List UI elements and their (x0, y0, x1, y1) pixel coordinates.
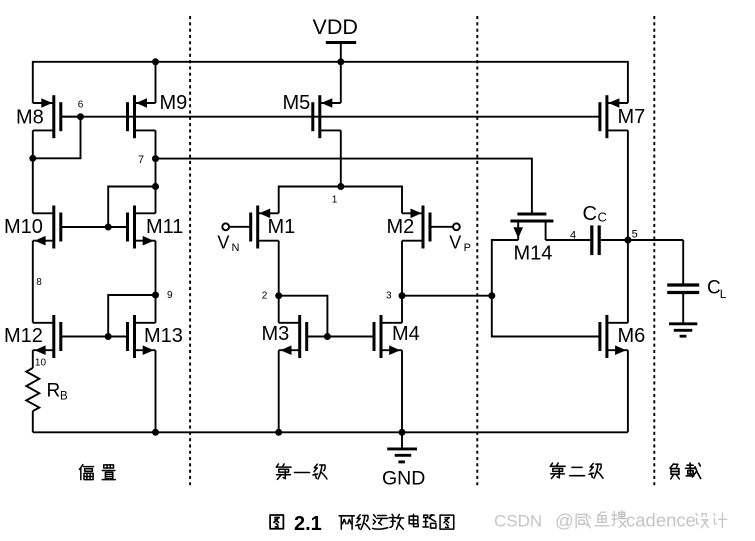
wire M10 M11 gate lead (61, 226, 128, 228)
svg-text:4: 4 (570, 230, 576, 242)
transistor M10 (33, 212, 54, 214)
label section load 负载 (670, 464, 679, 479)
wire bottom GND rail (33, 431, 628, 433)
wire CC to node5 (601, 239, 683, 241)
wire M9 source column (155, 62, 157, 103)
ground CL load ground (669, 322, 697, 325)
terminal VN input (222, 223, 229, 230)
wire bias gate line node6 (61, 116, 600, 118)
terminal VP input (453, 223, 460, 230)
svg-text:8: 8 (36, 277, 42, 288)
wire node7 line to M14 gate (156, 159, 532, 214)
wire M3 diode connection (279, 296, 328, 337)
transistor M6 (607, 322, 628, 324)
svg-text:V: V (217, 233, 229, 253)
node M12 M13 gate junction (105, 333, 112, 340)
transistor M8 (33, 102, 54, 104)
svg-text:M6: M6 (618, 325, 646, 347)
power VDD symbol (326, 41, 356, 44)
wire junction up to M14 source (492, 240, 518, 296)
transistor M12 (33, 322, 54, 324)
svg-text:M4: M4 (392, 323, 420, 345)
resistor RB (26, 368, 39, 411)
svg-text:1: 1 (332, 195, 338, 206)
wire CL to ground (682, 294, 684, 322)
label section bias 偏置 (79, 465, 93, 480)
transistor M5 (320, 102, 341, 104)
caption 图2.1 两级运放电路图 (270, 515, 283, 529)
divider first/second-stage (476, 16, 478, 486)
svg-text:B: B (60, 391, 68, 403)
node 7 (152, 155, 159, 162)
svg-text:C: C (598, 210, 607, 225)
label section first-stage 第一级 (276, 464, 291, 479)
wire M6 source to bottom rail (627, 350, 629, 432)
node 8 wire M10 source to M12 drain (32, 241, 34, 323)
label section second-stage 第二级 (550, 463, 565, 478)
node M3 M4 gate junction (324, 333, 331, 340)
wire M4 source to rail (401, 350, 403, 432)
svg-text:3: 3 (386, 290, 392, 301)
wire M8 drain to M10 drain (32, 130, 34, 213)
svg-text:M1: M1 (268, 216, 296, 238)
svg-text:M2: M2 (387, 216, 415, 238)
node bottom rail junctions (152, 429, 159, 436)
node M11 diode junction (152, 183, 159, 190)
wire node2 to M3 drain (278, 296, 280, 323)
node VDD junction dots on rail (152, 58, 159, 65)
transistor M14 (517, 213, 546, 216)
wire M5 drain to node1 (340, 130, 342, 186)
node 5 (624, 237, 631, 244)
wire resistor to bottom rail (32, 411, 34, 432)
wire M14 drain to CC (546, 239, 590, 241)
transistor M2 (402, 212, 423, 214)
node second stage junction (488, 292, 495, 299)
svg-text:M12: M12 (4, 325, 43, 347)
node 9 (152, 292, 159, 299)
wire M2 drain to node3 (401, 241, 403, 296)
wire top VDD rail (33, 62, 628, 103)
wire node3 to second stage (402, 295, 492, 297)
svg-text:V: V (449, 233, 461, 253)
svg-text:M13: M13 (144, 325, 183, 347)
transistor M4 (381, 322, 402, 324)
transistor M9 (135, 102, 156, 104)
wire M12 source to resistor (32, 350, 34, 368)
svg-text:7: 7 (138, 154, 144, 166)
wire junction down to M6 gate (492, 296, 600, 337)
svg-text:2: 2 (262, 290, 268, 301)
node 9 wire M11 source to M13 drain (155, 241, 157, 323)
node M8 drain junction (29, 155, 36, 162)
transistor M7 (607, 102, 628, 104)
svg-text:M7: M7 (618, 106, 646, 128)
svg-text:cadence: cadence (626, 510, 696, 531)
wire M12 M13 gate lead (61, 336, 128, 338)
wire M3 source to rail (278, 350, 280, 432)
node 6 (77, 113, 84, 120)
svg-text:M11: M11 (146, 216, 183, 238)
node 1 (337, 183, 344, 190)
svg-text:M14: M14 (514, 243, 553, 265)
wire M9 drain to node7 (155, 130, 157, 213)
svg-text:R: R (47, 381, 61, 402)
svg-text:5: 5 (632, 229, 638, 241)
node 2 (275, 292, 282, 299)
wire node3 to M4 drain (401, 296, 403, 323)
svg-text:L: L (720, 287, 727, 301)
wire M3 M4 gate lead (307, 336, 374, 338)
node M10 M11 gate junction (105, 224, 112, 231)
transistor M1 (258, 212, 279, 214)
svg-text:6: 6 (78, 99, 84, 110)
svg-text:C: C (707, 278, 721, 299)
ground GND symbol (401, 432, 403, 447)
svg-text:@: @ (555, 510, 574, 531)
svg-text:P: P (464, 242, 471, 254)
node 1 wire tail current (279, 187, 402, 214)
svg-text:N: N (232, 242, 240, 254)
transistor M13 (135, 322, 156, 324)
capacitor CC (590, 225, 593, 255)
svg-text:M5: M5 (283, 92, 311, 114)
wire M1 drain to node2 (278, 241, 280, 296)
node 3 (399, 292, 406, 299)
svg-text:10: 10 (35, 358, 47, 369)
transistor M11 (135, 212, 156, 214)
wire M11 diode connection (108, 187, 155, 228)
svg-text:M9: M9 (160, 92, 188, 114)
capacitor CL (667, 283, 699, 286)
svg-text:M8: M8 (16, 107, 44, 129)
divider bias/first-stage (189, 16, 191, 486)
wire M13 source to bottom rail (155, 350, 157, 432)
wire M8 diode connection (33, 117, 81, 159)
wire M13 diode connection (108, 295, 155, 337)
wire M7 drain column to M6 drain (627, 130, 629, 322)
wire node5 to CL (682, 240, 684, 284)
svg-text:9: 9 (167, 290, 173, 301)
svg-text:C: C (583, 203, 597, 225)
divider second-stage/load (653, 16, 655, 486)
svg-text:M3: M3 (262, 323, 290, 345)
svg-text:GND: GND (382, 468, 425, 490)
transistor M3 (279, 322, 300, 324)
svg-text:CSDN: CSDN (494, 512, 542, 531)
svg-text:2.1: 2.1 (294, 513, 322, 535)
svg-text:M10: M10 (4, 216, 43, 238)
wire M8 gate lead (61, 116, 81, 118)
svg-text:VDD: VDD (313, 15, 358, 39)
